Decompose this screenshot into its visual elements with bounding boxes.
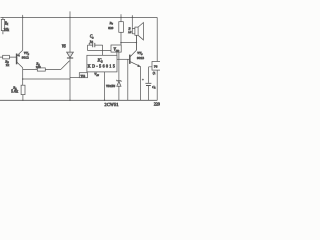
svg-text:76: 76: [154, 65, 158, 69]
wire speaker bottom to collector: [135, 35, 137, 50]
resistor R2: [0, 55, 17, 59]
svg-text:10k: 10k: [4, 28, 10, 32]
transistor VT3: [130, 35, 141, 100]
wire IC2 output to VT3 base: [117, 58, 130, 60]
svg-text:1k: 1k: [6, 63, 10, 67]
svg-text:TG: TG: [81, 74, 86, 78]
pin VDD box: [111, 45, 121, 55]
diode VD zener: [117, 52, 122, 100]
resistor R6 820: [119, 14, 124, 45]
wire right edge bottom drop: [156, 70, 158, 100]
node VDD junction: [120, 42, 122, 44]
capacitor C1: [142, 67, 152, 101]
svg-text:100: 100: [36, 65, 41, 69]
node emitter branch junction: [22, 78, 24, 80]
wire TG input: [70, 77, 79, 79]
thyristor VS: [61, 11, 73, 100]
svg-text:1μ: 1μ: [90, 40, 94, 44]
wire output node to ground rail: [127, 59, 129, 100]
node cathode ground junction: [69, 100, 70, 101]
wire right edge top drop: [156, 17, 158, 61]
svg-text:L2: L2: [127, 30, 132, 34]
svg-text:VS: VS: [62, 45, 66, 49]
speaker B: [132, 15, 143, 40]
transistor VT2: [17, 17, 23, 85]
wire VDD node to collector node: [121, 42, 136, 44]
svg-text:2CW51: 2CW51: [105, 102, 119, 107]
pin TG: [79, 73, 87, 78]
svg-text:820: 820: [108, 26, 113, 30]
IC IC2: [87, 55, 117, 72]
connector box right edge: [152, 62, 162, 71]
svg-text:9012: 9012: [22, 56, 29, 60]
svg-text:220: 220: [154, 102, 160, 107]
svg-text:VD1N4: VD1N4: [106, 84, 116, 88]
node A collector junction: [22, 17, 23, 18]
resistor R1: [1, 17, 4, 34]
node collector wire junction: [136, 42, 137, 43]
resistor R5: [21, 85, 25, 100]
resistor R4: [23, 68, 61, 71]
wire top supply rail: [0, 16, 157, 18]
capacitor C2: [88, 43, 112, 56]
wire bottom ground rail: [0, 99, 157, 101]
svg-text:9013: 9013: [137, 56, 144, 60]
wire emitter node to thyristor cathode: [23, 78, 70, 80]
node Vss ground junction: [104, 100, 105, 101]
svg-text:5.6k: 5.6k: [11, 89, 18, 93]
wire Vss to ground rail: [104, 72, 106, 100]
node R5 ground junction: [22, 100, 23, 101]
node speaker top junction: [132, 17, 133, 18]
node anode junction: [69, 17, 70, 18]
wire stub above rail at node A: [22, 15, 24, 18]
svg-text:(1: (1: [153, 71, 156, 75]
node R6 top junction: [120, 17, 121, 18]
